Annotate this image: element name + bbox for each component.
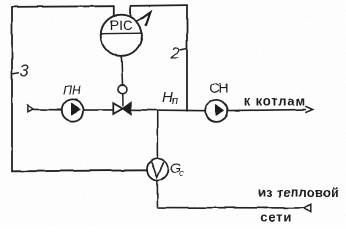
valve body left wing [113,103,122,114]
label 3 [13,63,30,81]
wire top-left segment (net 3 to PIC) [12,5,114,8]
wire to heat network [157,207,304,209]
valve body right wing (filled) [123,103,131,115]
wire right stub into PIC [130,6,132,17]
wire bottom horizontal to Gc [12,170,147,171]
wire right vertical (impulse line 2) [186,5,188,111]
wire inlet to pump PN [34,108,62,110]
label 1 [136,12,151,25]
valve V1 actuator head [118,85,127,94]
wire PIC output down to valve actuator [121,56,122,85]
wire top-right segment (PIC to net 2) [131,4,187,7]
valve stem [122,94,124,107]
label 2 [170,45,187,62]
wire left vertical (line 3) [11,7,13,171]
wire Gc down [156,180,158,208]
node Hp label [162,89,178,107]
wire node Hp down to flow sensor Gc [156,111,158,159]
wire valve to pump SN (through node Hp) [131,109,205,112]
arrow to boilers [305,106,312,113]
wire pump SN to boilers [227,110,306,111]
pump PN (ПН) [62,84,84,122]
flow sensor Gc [147,159,184,180]
wire pump PN to valve [84,109,114,111]
pump SN (СН) [205,80,227,122]
wire left stub into PIC [113,6,115,16]
controller U1 PIC [101,15,142,56]
connector from heat network (open triangle) [304,204,311,211]
inlet connector (left open triangle) [28,106,34,113]
